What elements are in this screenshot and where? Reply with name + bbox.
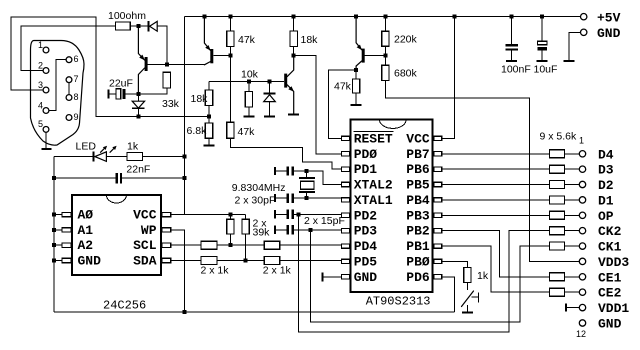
svg-text:9 x 5.6k: 9 x 5.6k — [540, 131, 578, 143]
svg-text:2 x 15pF: 2 x 15pF — [304, 215, 345, 227]
wire Q2 base to 47k node — [213, 54, 230, 56]
diode D2 — [132, 96, 144, 114]
terminal CK2 — [579, 228, 585, 234]
wire 18k right to node — [293, 46, 295, 53]
wire Q1 base to Q2 collector — [148, 63, 205, 65]
svg-text:XTAL1: XTAL1 — [354, 193, 393, 208]
U2 pin stub PB3 — [434, 213, 442, 217]
svg-text:PB1: PB1 — [406, 239, 430, 254]
wire GND bus to LED — [54, 156, 93, 158]
ground (6.8k) — [204, 144, 215, 146]
node 15pF a junction — [297, 212, 301, 216]
node GND bus A0 — [52, 213, 56, 217]
U2 pin stub PB0 — [434, 259, 442, 263]
ground (GND terminal) — [564, 60, 575, 62]
wire D1 to Q1 base node — [157, 26, 167, 62]
resistor 5.6k (CK2) — [549, 227, 564, 235]
svg-text:PB3: PB3 — [406, 208, 430, 223]
wire 10k rail (Q3 base) — [209, 80, 284, 82]
svg-text:7: 7 — [74, 74, 79, 84]
U2 pin stub PB1 — [434, 244, 442, 248]
wire SDA to PD5 — [280, 260, 342, 262]
U2 pin stub PD3 — [341, 229, 349, 233]
wire U1 SDA to 1k — [171, 260, 201, 262]
resistor 47k (lower) — [227, 122, 234, 138]
wire SCL to PD4 — [280, 244, 342, 246]
resistor 1k (SDA b) — [264, 257, 280, 265]
U2 pin stub VCC — [434, 136, 442, 140]
U2 pin stub PD2 — [341, 213, 349, 217]
svg-text:6: 6 — [74, 54, 79, 64]
U1 pin stub VCC — [162, 212, 171, 216]
svg-text:VDD3: VDD3 — [598, 255, 629, 270]
wire LED to 1k — [106, 156, 127, 158]
node rail 220k — [383, 15, 387, 19]
node crystal top — [304, 169, 308, 173]
svg-text:39k: 39k — [253, 227, 271, 239]
node WP on GND rail — [183, 310, 187, 314]
resistor 1k (SCL b) — [264, 241, 280, 249]
wire 5.6k to D1 terminal — [564, 199, 579, 201]
svg-text:GND: GND — [78, 254, 102, 269]
node rail VCC drop — [453, 15, 457, 19]
wire 10k rail corner down to 18k — [208, 81, 210, 90]
U2 pin stub XTAL1 — [341, 198, 349, 202]
wire 5.6k to CE2 terminal — [564, 291, 579, 293]
wire J1 pin7 to pin8 jumper — [68, 83, 70, 95]
svg-text:18k: 18k — [301, 34, 319, 46]
pushbutton S1 — [462, 283, 479, 312]
LED — [93, 146, 117, 162]
capacitor 10uF — [537, 17, 547, 60]
resistor 680k — [382, 65, 389, 80]
node Q1 base / 33k / Q2 collector — [165, 62, 169, 66]
J1 pin 5 — [38, 119, 49, 132]
svg-text:GND: GND — [597, 26, 621, 41]
wire 39k1 top lead — [229, 215, 231, 220]
terminal bar (VDD1) — [565, 304, 567, 312]
svg-text:22uF: 22uF — [109, 78, 133, 90]
J1 pin 8 — [66, 92, 78, 102]
svg-text:PB2: PB2 — [406, 224, 430, 239]
svg-text:1: 1 — [579, 136, 584, 146]
svg-text:PD2: PD2 — [354, 208, 378, 223]
wire U1 VCC to +5V / 39k rail — [171, 214, 246, 216]
node rail 47k1 — [228, 15, 232, 19]
svg-text:D3: D3 — [598, 163, 614, 178]
node Q4 collector — [354, 68, 358, 72]
node GND bus A2 — [52, 243, 56, 247]
node rail 10uF — [540, 15, 544, 19]
svg-text:PBØ: PBØ — [406, 254, 430, 269]
wire U1 A2 to GND bus — [54, 244, 62, 246]
capacitor 22nF — [54, 173, 183, 184]
svg-text:PB7: PB7 — [406, 147, 429, 162]
svg-text:9: 9 — [74, 112, 79, 122]
zener diode D3 — [264, 81, 276, 115]
ground (Q3 emitter) — [288, 114, 299, 116]
terminal D4 — [579, 151, 585, 157]
svg-text:3: 3 — [38, 80, 43, 90]
U2 pin stub PB4 — [434, 198, 442, 202]
wire U1 WP to GND rail — [171, 230, 185, 310]
svg-text:AØ: AØ — [78, 208, 94, 223]
wire pin3 loop to node A (y=116 rail) — [11, 17, 207, 117]
svg-text:CK2: CK2 — [598, 224, 622, 239]
svg-text:GND: GND — [354, 270, 378, 285]
capacitor 15pF (a) — [274, 210, 294, 219]
wire 39k2 to SDA — [245, 234, 247, 258]
wire XTAL1 net — [294, 197, 341, 199]
MCU U2 AT90S2313 body — [351, 120, 433, 292]
svg-text:PDØ: PDØ — [354, 147, 378, 162]
resistor 1k (PB0 pulldown) — [464, 268, 471, 283]
terminal VDD3 — [579, 258, 585, 264]
svg-text:2: 2 — [38, 60, 43, 70]
wire PD3 net to CK1 — [311, 230, 550, 322]
EEPROM U1 24C256 body — [72, 195, 161, 275]
svg-text:OP: OP — [598, 209, 614, 224]
wire PB2 to CE1 resistor — [442, 231, 550, 277]
capacitor 15pF (b) — [274, 225, 294, 234]
terminal VDD1 — [579, 304, 585, 310]
svg-text:GND: GND — [598, 317, 622, 332]
U2 pin stub XTAL2 — [341, 182, 349, 186]
svg-text:D4: D4 — [598, 147, 614, 162]
wire pin2 loop to 100ohm resistor — [21, 26, 116, 71]
U2 pin stub RESET — [341, 136, 349, 140]
svg-text:4: 4 — [38, 100, 43, 110]
wire 47k1 to 47k2 (Q2 base column) — [229, 46, 231, 122]
wire 1k to +5V line — [143, 156, 183, 158]
svg-text:1k: 1k — [477, 270, 489, 282]
node LED row on +5V line — [183, 155, 187, 159]
wire J1 pin5 to ground — [45, 132, 47, 148]
node Q1 emitter junction — [136, 24, 140, 28]
ground (J1 pin 5) — [42, 148, 52, 150]
svg-text:9.8304MHz: 9.8304MHz — [232, 182, 286, 194]
wire 33k to node B — [140, 88, 166, 94]
U2 pin stub PD4 — [341, 244, 349, 248]
svg-text:2 x 1k: 2 x 1k — [263, 265, 292, 277]
wire 680k to VDD3 terminal — [385, 81, 579, 262]
node zener top — [268, 79, 272, 83]
wire PB1 to CE2 resistor — [442, 246, 550, 292]
resistor 39k (b) — [242, 219, 249, 234]
svg-text:PB4: PB4 — [406, 193, 430, 208]
wire 39k1 to SCL — [229, 234, 231, 243]
U2 RESET overline — [354, 131, 394, 133]
terminal D1 — [579, 197, 585, 203]
node SDA / 39k2 — [244, 259, 248, 263]
wire VDD1 stub — [567, 307, 579, 309]
svg-text:PD3: PD3 — [354, 224, 378, 239]
wire PB6 to D3 resistor — [442, 168, 550, 170]
node 18k/6.8k junction — [207, 114, 211, 118]
node rail Q4 emitter — [354, 15, 358, 19]
svg-text:CE2: CE2 — [598, 286, 622, 301]
resistor 5.6k (D1) — [549, 196, 564, 204]
wire XTAL2 net — [294, 171, 341, 185]
resistor 5.6k (CK1) — [549, 242, 564, 250]
wire U1 A0 to GND bus — [54, 214, 62, 216]
svg-text:WP: WP — [141, 223, 157, 238]
svg-text:18k: 18k — [191, 93, 209, 105]
wire node to PD0 — [294, 55, 342, 154]
U2 pin stub PD1 — [341, 167, 349, 171]
resistor 5.6k (OP) — [549, 211, 564, 219]
node D2 to y116 rail — [136, 114, 140, 118]
svg-text:220k: 220k — [394, 34, 418, 46]
resistor 1k (LED) — [127, 153, 143, 161]
J1 pin 6 — [66, 54, 78, 64]
wire 47k lower to PD1 — [230, 138, 341, 169]
wire J1 pin4 to pin6 jumper — [49, 60, 66, 111]
svg-text:VDD1: VDD1 — [598, 301, 629, 316]
node GND bus A1 — [52, 228, 56, 232]
wire GND bus vertical (left) — [53, 157, 55, 312]
resistor 47k (upper) — [227, 31, 234, 47]
svg-text:SDA: SDA — [133, 254, 157, 269]
svg-text:6.8k: 6.8k — [187, 125, 208, 137]
svg-text:VCC: VCC — [133, 208, 157, 223]
svg-text:47k: 47k — [238, 34, 256, 46]
svg-text:CK1: CK1 — [598, 240, 622, 255]
wire 5.6k to CE1 terminal — [564, 276, 579, 278]
terminal CE2 — [579, 289, 585, 295]
U2 pin stub PB5 — [434, 182, 442, 186]
resistor 100ohm — [116, 22, 131, 30]
svg-text:10k: 10k — [241, 69, 259, 81]
ground (47k Q4) — [351, 104, 362, 106]
node Q2 base — [228, 53, 232, 57]
svg-text:D2: D2 — [598, 178, 614, 193]
wire +5V vertical feed — [184, 17, 186, 215]
svg-text:8: 8 — [74, 92, 79, 102]
connector J1 DB9 shell — [31, 41, 85, 146]
wire SDA between 1k pair — [217, 260, 264, 262]
resistor 47k (Q4) — [352, 79, 359, 93]
U1 pin stub A1 — [62, 228, 71, 232]
svg-text:PD5: PD5 — [354, 254, 378, 269]
diode D1 — [147, 21, 157, 32]
terminal GND (top) — [581, 29, 587, 35]
svg-text:5: 5 — [38, 119, 43, 129]
terminal CE1 — [579, 274, 585, 280]
svg-text:680k: 680k — [394, 68, 418, 80]
wire y116 rail (D2 to 18k column) — [138, 115, 207, 117]
U2 GND pin stub bar — [323, 276, 342, 278]
wire U1 A1 to GND bus — [54, 229, 62, 231]
J1 pin 1 — [38, 40, 49, 53]
resistor 5.6k (D3) — [549, 165, 564, 173]
U2 pin stub GND — [341, 275, 349, 279]
node B Q1 collector junction — [136, 92, 140, 96]
svg-text:2 x 1k: 2 x 1k — [201, 265, 230, 277]
capacitor 30pF (b) — [274, 193, 294, 202]
node 39k1 top on VCC rail — [228, 213, 232, 217]
U1 pin stub SDA — [162, 258, 171, 262]
wire 18k to node — [208, 106, 210, 115]
node SCL / 39k1 — [228, 243, 232, 247]
resistor 220k — [382, 31, 389, 46]
U2 pin stub PB7 — [434, 152, 442, 156]
wire PB7 to D4 resistor — [442, 153, 550, 155]
wire 5.6k to D3 terminal — [564, 168, 579, 170]
J1 pin 9 — [66, 112, 78, 122]
U1 pin stub WP — [162, 228, 171, 232]
resistor 5.6k (CE1) — [549, 273, 564, 281]
terminal +5V — [581, 14, 587, 20]
svg-text:D1: D1 — [598, 193, 614, 208]
wire 10k leads — [248, 81, 250, 115]
node GND bus GND — [52, 259, 56, 263]
terminal GND — [579, 320, 585, 326]
wire 220k to 680k — [384, 46, 386, 65]
transistor Q1 (PNP) — [138, 26, 147, 92]
wire U1 GND to GND bus — [54, 260, 62, 262]
wire top +5V rail — [185, 16, 581, 18]
svg-text:33k: 33k — [162, 98, 180, 110]
svg-text:2 x 30pF: 2 x 30pF — [235, 195, 276, 207]
node Q4 base junction — [383, 53, 387, 57]
wire rail to 18k right — [293, 17, 295, 31]
terminal D2 — [579, 181, 585, 187]
wire 5.6k to D4 terminal — [564, 153, 579, 155]
resistor 18k (right) — [290, 31, 297, 46]
wire GND rail (bottom) — [54, 311, 455, 313]
svg-text:100nF: 100nF — [501, 64, 531, 76]
svg-text:XTAL2: XTAL2 — [354, 178, 393, 193]
ground (pushbutton) — [462, 312, 473, 314]
svg-text:1k: 1k — [127, 141, 139, 153]
svg-text:VCC: VCC — [406, 131, 430, 146]
J1 pin 7 — [66, 74, 78, 84]
wire SCL between 1k pair — [217, 244, 264, 246]
resistor 39k (a) — [227, 219, 234, 234]
wire Q4 base to 220k node — [365, 54, 386, 56]
wire 100ohm to D1 — [130, 25, 147, 27]
wire PB4 to D1 resistor — [442, 199, 550, 201]
svg-text:47k: 47k — [334, 81, 352, 93]
wire PB5 to D2 resistor — [442, 184, 550, 186]
svg-text:10uF: 10uF — [534, 64, 558, 76]
wire PB0 to 1k pulldown — [442, 261, 468, 267]
J1 pin 2 — [38, 60, 49, 73]
U1 pin stub A0 — [62, 212, 71, 216]
U1 pin stub GND — [62, 258, 71, 262]
ground (10uF) — [537, 60, 548, 62]
wire rail to 47k1 — [229, 17, 231, 31]
node 10k top — [247, 79, 251, 83]
resistor 33k — [163, 72, 170, 88]
svg-text:100ohm: 100ohm — [108, 10, 146, 22]
svg-text:CE1: CE1 — [598, 270, 622, 285]
wire Q4 collector to RESET — [329, 70, 356, 138]
wire PD6 down to GND rail — [442, 277, 455, 312]
node 22nF on GND bus — [52, 176, 56, 180]
terminal D3 — [579, 166, 585, 172]
svg-text:SCL: SCL — [133, 238, 157, 253]
transistor Q3 (NPN) — [284, 55, 294, 113]
U2 pin stub PB6 — [434, 167, 442, 171]
node 15pF b junction — [309, 228, 313, 232]
wire 47k Q4 to ground — [355, 93, 357, 104]
wire PB3 to OP resistor — [442, 214, 550, 216]
ground (10k) — [243, 116, 254, 118]
crystal Y1 9.8304MHz — [299, 171, 315, 198]
svg-text:PD6: PD6 — [406, 270, 430, 285]
U2 pin stub PD5 — [341, 259, 349, 263]
svg-text:A1: A1 — [78, 223, 94, 238]
ground (100nF) — [506, 60, 517, 62]
U2 pin stub PD6 — [434, 275, 442, 279]
resistor 5.6k (D4) — [549, 150, 564, 158]
transistor Q2 (PNP) — [204, 17, 213, 65]
resistor 18k (left) — [205, 90, 212, 106]
resistor 5.6k (CE2) — [549, 288, 564, 296]
capacitor 22uF — [107, 89, 136, 99]
wire PD2 net to CK2 — [299, 214, 550, 332]
U1 pin stub A2 — [62, 243, 71, 247]
svg-text:PB6: PB6 — [406, 162, 430, 177]
node rail 18k right — [292, 15, 296, 19]
wire 5.6k to CK1 terminal — [564, 245, 579, 247]
terminal OP — [579, 212, 585, 218]
svg-text:PB5: PB5 — [406, 178, 430, 193]
U1 pin stub SCL — [162, 243, 171, 247]
svg-text:PD4: PD4 — [354, 239, 378, 254]
terminal CK1 — [579, 243, 585, 249]
node Q3 collector / PD0 — [292, 53, 296, 57]
wire U1 SCL to 1k — [171, 244, 201, 246]
wire rail to U2 VCC pin — [442, 17, 455, 139]
wire VCC rail corner to 39k2 — [244, 215, 246, 220]
svg-text:A2: A2 — [78, 238, 94, 253]
J1 pin 3 — [38, 80, 49, 93]
capacitor 100nF — [505, 17, 518, 60]
J1 pin 4 — [38, 100, 49, 113]
transistor Q4 (PNP) — [356, 17, 365, 68]
wire GND terminal stub — [569, 32, 581, 60]
svg-text:LED: LED — [76, 141, 97, 153]
node crystal bottom — [304, 196, 308, 200]
wire PD3 net row — [294, 229, 341, 231]
svg-text:24C256: 24C256 — [103, 299, 146, 313]
svg-text:+5V: +5V — [597, 11, 621, 26]
wire 5.6k to OP terminal — [564, 214, 579, 216]
terminal bar (U2 GND) — [322, 272, 324, 281]
node rail Q2 emitter — [202, 15, 206, 19]
resistor 10k — [245, 92, 252, 108]
capacitor 30pF (a) — [274, 166, 294, 175]
svg-text:RESET: RESET — [354, 131, 393, 146]
svg-text:AT90S2313: AT90S2313 — [366, 295, 431, 309]
resistor 5.6k (D2) — [549, 181, 564, 189]
wire PD2 net row — [294, 213, 341, 215]
svg-text:1: 1 — [38, 40, 43, 50]
wire 5.6k to D2 terminal — [564, 184, 579, 186]
svg-text:47k: 47k — [238, 126, 256, 138]
svg-text:22nF: 22nF — [126, 164, 150, 176]
node rail 100nF — [510, 15, 514, 19]
U2 pin stub PB2 — [434, 229, 442, 233]
wire rail to 220k — [384, 17, 386, 32]
wire 6.8k leads — [208, 116, 210, 144]
node 22nF on +5V line — [183, 176, 187, 180]
svg-text:12: 12 — [576, 329, 586, 339]
resistor 6.8k — [205, 123, 212, 138]
